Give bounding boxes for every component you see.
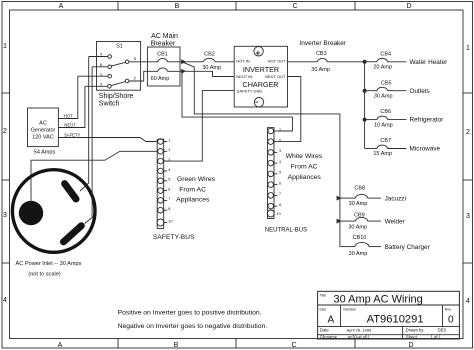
svg-text:NEUT OUT: NEUT OUT — [265, 74, 286, 79]
node feeder CB8 — [337, 196, 342, 201]
svg-text:B: B — [174, 342, 179, 349]
svg-text:Filename: Filename — [320, 334, 338, 339]
svg-text:CB6: CB6 — [380, 109, 391, 115]
svg-text:1: 1 — [168, 138, 170, 142]
svg-text:Battery Charger: Battery Charger — [385, 244, 431, 251]
svg-text:8: 8 — [168, 207, 170, 211]
svg-text:30 Amp: 30 Amp — [348, 224, 367, 230]
svg-text:Title: Title — [320, 294, 327, 298]
node dist3 — [363, 118, 367, 122]
svg-text:CB5: CB5 — [381, 80, 392, 86]
svg-text:4: 4 — [279, 160, 281, 164]
wire S1 pin 2 to CB1 pole 2 — [129, 71, 158, 81]
svg-text:Green Wires: Green Wires — [177, 176, 216, 183]
svg-text:AT9610291: AT9610291 — [367, 313, 424, 325]
svg-text:Switch: Switch — [99, 100, 120, 107]
wire CB3 to distribution bus — [327, 61, 365, 63]
svg-text:4: 4 — [466, 298, 470, 305]
svg-text:CB8: CB8 — [354, 185, 365, 191]
svg-text:6: 6 — [168, 187, 170, 191]
svg-text:April 28, 1996: April 28, 1996 — [347, 328, 372, 333]
svg-text:HOT OUT: HOT OUT — [268, 58, 286, 63]
breaker CB7 15 Amp — [365, 138, 407, 157]
svg-text:30 Amp: 30 Amp — [349, 251, 368, 257]
svg-text:Negative on Inverter goes to n: Negative on Inverter goes to negative di… — [118, 323, 268, 330]
wire inlet safety pin to safety bus pin 2 — [31, 151, 157, 201]
svg-text:4: 4 — [3, 297, 7, 304]
svg-text:20 Amp: 20 Amp — [373, 65, 392, 71]
svg-text:10 Amp: 10 Amp — [374, 122, 393, 128]
svg-text:White Wires: White Wires — [286, 153, 323, 160]
svg-text:From AC: From AC — [179, 186, 206, 193]
svg-text:1: 1 — [466, 45, 470, 52]
svg-text:Size: Size — [319, 307, 326, 311]
svg-text:INVERTER: INVERTER — [243, 65, 279, 74]
svg-text:Number: Number — [343, 307, 357, 311]
svg-text:D: D — [406, 3, 411, 10]
svg-text:SAFETY-BUS: SAFETY-BUS — [153, 234, 195, 241]
svg-text:SAFETY GND: SAFETY GND — [237, 88, 263, 93]
svg-text:Drawn by: Drawn by — [406, 328, 425, 333]
svg-text:CB10: CB10 — [353, 235, 367, 241]
svg-text:Generator: Generator — [31, 128, 56, 134]
svg-text:NEUT: NEUT — [64, 123, 76, 128]
node A junction on hot — [181, 59, 186, 64]
breaker CB2 30 Amp — [202, 52, 221, 71]
svg-text:1: 1 — [3, 43, 7, 50]
wire distribution bus CB4-CB7 — [364, 62, 366, 149]
svg-text:Welder: Welder — [385, 218, 406, 225]
svg-text:DES: DES — [438, 328, 447, 333]
wire inverter HOT OUT to CB3 — [288, 61, 318, 63]
svg-text:Appliances: Appliances — [288, 174, 322, 181]
wire generator HOT to S1 pin 1 — [58, 76, 77, 118]
svg-text:CB3: CB3 — [316, 51, 327, 57]
svg-text:6: 6 — [279, 181, 281, 185]
svg-text:3: 3 — [3, 212, 7, 219]
svg-text:30 Amp: 30 Amp — [202, 65, 221, 71]
wire inverter NEUT OUT to neutral bus pin 2 — [277, 77, 301, 142]
wire CB2 to inverter HOT IN — [215, 61, 234, 63]
svg-text:A: A — [59, 3, 64, 10]
svg-text:2: 2 — [466, 129, 470, 136]
svg-text:8: 8 — [279, 203, 281, 207]
svg-text:C: C — [291, 342, 296, 349]
svg-text:CB2: CB2 — [204, 52, 215, 58]
svg-text:Ship/Shore: Ship/Shore — [99, 93, 134, 100]
node dist2 — [363, 89, 367, 93]
wire generator NEUT to S1 pin 3 — [58, 86, 85, 127]
svg-text:Microwave: Microwave — [410, 146, 441, 153]
wire hot branch node A to CB8-CB10 feeder — [182, 62, 340, 247]
svg-text:5: 5 — [168, 178, 170, 182]
title block — [318, 291, 460, 339]
wire S1 pin 5 to CB1 pole 1 — [129, 61, 158, 63]
breaker CB3 Inverter Breaker 30 Amp — [299, 40, 346, 73]
svg-text:30 Amp: 30 Amp — [374, 93, 393, 99]
AC power inlet J1 — [12, 170, 95, 253]
svg-text:0: 0 — [448, 315, 454, 326]
svg-text:15 Amp: 15 Amp — [373, 151, 392, 157]
svg-text:From AC: From AC — [291, 164, 318, 171]
svg-text:3: 3 — [279, 149, 281, 153]
svg-text:120 VAC: 120 VAC — [32, 135, 54, 141]
generator G1 AC Generator 120 VAC — [28, 108, 59, 156]
svg-text:2: 2 — [168, 148, 170, 152]
svg-text:1: 1 — [279, 128, 281, 132]
svg-text:5: 5 — [279, 171, 281, 175]
switch S1 Ship/Shore — [78, 42, 141, 91]
wire inverter SAFETY GND to safety bus pin 3 — [164, 91, 235, 162]
breaker CB4 20 Amp — [365, 51, 407, 70]
wire inlet hot blade to S1 pin 4 — [80, 57, 89, 192]
svg-text:7: 7 — [168, 197, 170, 201]
svg-text:AC: AC — [39, 121, 47, 127]
svg-text:S1: S1 — [116, 44, 123, 50]
svg-text:Inverter Breaker: Inverter Breaker — [299, 40, 346, 47]
breaker CB8 30 Amp — [340, 185, 381, 207]
svg-text:HOT: HOT — [64, 114, 73, 119]
breaker CB10 30 Amp — [340, 235, 381, 257]
svg-text:SAFETY: SAFETY — [64, 133, 80, 138]
svg-text:(not to scale): (not to scale) — [28, 271, 60, 277]
safety bus bar — [157, 138, 173, 228]
wire CB1 pole2 to neutral step and node B — [167, 71, 234, 76]
wire neutral branch node B to neutral bus pin 1 — [182, 71, 292, 131]
svg-text:ac30-at.s01: ac30-at.s01 — [348, 334, 371, 339]
node dist1 — [363, 60, 367, 64]
svg-text:AC Power Inlet -- 30 Amps: AC Power Inlet -- 30 Amps — [16, 261, 82, 267]
svg-text:Appliances: Appliances — [176, 196, 210, 203]
svg-text:54 Amps: 54 Amps — [34, 150, 56, 156]
svg-text:Jacuzzi: Jacuzzi — [385, 195, 406, 202]
svg-text:A: A — [58, 342, 63, 349]
svg-text:3: 3 — [466, 213, 470, 220]
svg-text:Outlets: Outlets — [410, 88, 430, 95]
svg-text:CB7: CB7 — [380, 138, 391, 144]
svg-text:NEUT IN: NEUT IN — [236, 74, 252, 79]
breaker CB9 30 Amp — [340, 212, 381, 230]
svg-text:AC Main: AC Main — [151, 33, 178, 40]
wire inlet neutral blade to S1 pin 6 — [85, 67, 92, 224]
svg-text:4: 4 — [168, 168, 170, 172]
node feeder CB9 — [337, 219, 342, 224]
wire CB1 pole1 to CB2 and node A — [167, 61, 203, 63]
svg-text:D: D — [408, 342, 413, 349]
svg-text:NEUTRAL-BUS: NEUTRAL-BUS — [265, 228, 307, 234]
svg-text:30 Amp AC Wiring: 30 Amp AC Wiring — [334, 294, 423, 306]
svg-text:2: 2 — [3, 128, 7, 135]
inverter/charger U1 — [234, 46, 287, 107]
svg-text:B: B — [175, 3, 180, 10]
svg-text:10: 10 — [168, 219, 172, 223]
svg-text:60 Amp: 60 Amp — [151, 76, 170, 82]
svg-text:Refrigerator: Refrigerator — [410, 117, 445, 124]
svg-text:Positive on Inverter goes to p: Positive on Inverter goes to positive di… — [118, 309, 262, 316]
svg-text:10: 10 — [277, 212, 281, 216]
svg-text:A: A — [328, 315, 335, 326]
svg-text:30 Amp: 30 Amp — [311, 67, 330, 73]
svg-text:Rev: Rev — [445, 307, 452, 311]
breaker CB1 AC Main Breaker 60 Amp — [147, 33, 180, 86]
svg-text:2: 2 — [279, 138, 281, 142]
svg-text:7: 7 — [279, 192, 281, 196]
wire generator SAFETY to safety bus pin 1 — [58, 138, 157, 142]
svg-text:3: 3 — [168, 158, 170, 162]
svg-text:Sheet: Sheet — [406, 334, 418, 339]
svg-text:Breaker: Breaker — [151, 40, 176, 47]
svg-text:30 Amp: 30 Amp — [349, 201, 368, 207]
svg-text:CB4: CB4 — [380, 51, 391, 57]
breaker CB5 30 Amp — [365, 80, 407, 99]
node B junction on neutral — [181, 69, 186, 74]
neutral bus bar — [267, 128, 281, 219]
svg-text:CB1: CB1 — [157, 52, 168, 58]
svg-text:HOT IN: HOT IN — [236, 58, 250, 63]
svg-text:Water Heater: Water Heater — [410, 59, 449, 66]
breaker CB6 10 Amp — [365, 109, 407, 128]
svg-text:C: C — [292, 3, 297, 10]
svg-text:1 of 1: 1 of 1 — [431, 334, 442, 339]
svg-text:Date: Date — [320, 328, 330, 333]
